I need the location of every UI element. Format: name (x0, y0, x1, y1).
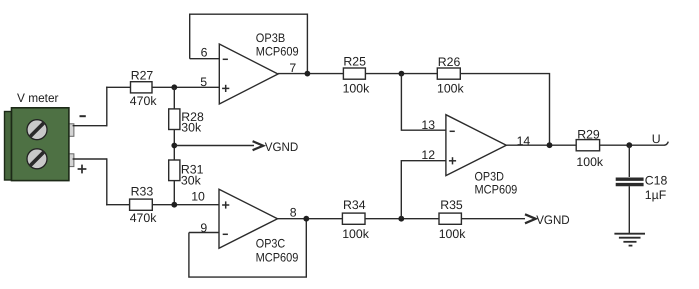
resistor R26 (437, 55, 465, 96)
node OP3C output junction (303, 216, 309, 222)
wire junction down to C18 (628, 145, 630, 177)
wire R26 feedback to OP3D output (460, 74, 549, 146)
svg-text:VGND: VGND (265, 140, 299, 154)
wire OP3C output (278, 218, 343, 220)
svg-text:R29: R29 (577, 128, 600, 142)
svg-text:R34: R34 (343, 198, 366, 212)
wire junction to pin12 (401, 161, 446, 219)
label plus (78, 165, 87, 174)
svg-text:MCP609: MCP609 (256, 251, 299, 265)
wire to VGND arrow (174, 145, 254, 147)
svg-text:R26: R26 (438, 55, 461, 69)
svg-text:470k: 470k (130, 94, 158, 108)
wire plus tab to corner (73, 158, 107, 160)
node R34/R35 junction (398, 216, 404, 222)
node R31/R33 junction (171, 202, 177, 208)
wire OP3D output (506, 144, 576, 146)
resistor R25 (343, 55, 371, 96)
svg-text:VGND: VGND (536, 213, 570, 227)
svg-text:100k: 100k (439, 227, 467, 241)
wire R34 to R35 (365, 218, 439, 220)
wire R27 to pin5 (152, 86, 219, 88)
label minus (80, 115, 86, 117)
resistor R34 (342, 198, 370, 241)
wire corner down (106, 158, 108, 205)
capacitor C18 (616, 173, 668, 202)
resistor R33 (130, 185, 158, 225)
op-amp U-OP3B (219, 31, 298, 104)
wire pin6 stub (190, 58, 220, 60)
svg-text:OP3C: OP3C (256, 236, 285, 250)
ground symbol (614, 234, 645, 246)
wire R25 to R26 (365, 73, 437, 75)
wire R29 to output U (600, 144, 665, 146)
svg-text:1µF: 1µF (645, 188, 667, 202)
svg-text:R33: R33 (131, 185, 154, 199)
wire R35 to VGND arrow (461, 218, 525, 220)
resistor R27 (130, 69, 158, 109)
svg-text:OP3D: OP3D (475, 169, 504, 183)
resistor R35 (439, 198, 467, 241)
svg-text:MCP609: MCP609 (256, 45, 299, 59)
svg-text:OP3B: OP3B (256, 31, 285, 45)
svg-text:13: 13 (421, 118, 435, 132)
wire OP3B feedback loop (190, 14, 308, 73)
svg-text:8: 8 (290, 206, 297, 220)
svg-text:10: 10 (191, 190, 205, 204)
wire corner to R33 (106, 204, 130, 206)
node OP3B output junction (305, 71, 311, 77)
node OP3D output junction (547, 142, 553, 148)
wire R28 to R31 (173, 130, 175, 161)
wire junction down to R28 (173, 87, 175, 109)
svg-text:100k: 100k (342, 227, 370, 241)
wire corner up (106, 87, 108, 127)
op-amp U-OP3D (446, 115, 518, 197)
wire C18 to ground (628, 186, 630, 234)
svg-text:470k: 470k (130, 211, 158, 225)
svg-text:7: 7 (289, 61, 296, 75)
VGND arrow bottom (525, 213, 570, 227)
resistor R29 (576, 128, 604, 170)
resistor R28 (169, 109, 204, 135)
node R25/R26 junction (399, 71, 405, 77)
svg-text:R25: R25 (343, 55, 366, 69)
svg-text:R27: R27 (131, 69, 154, 83)
wire OP3C feedback loop (189, 219, 306, 277)
svg-text:100k: 100k (343, 81, 371, 95)
wire pin9 stub (189, 232, 219, 234)
svg-text:30k: 30k (181, 121, 202, 135)
svg-text:C18: C18 (645, 173, 668, 187)
node at R27/R28 junction (171, 84, 177, 90)
connector J1 V meter terminal block (5, 108, 74, 181)
svg-text:6: 6 (201, 45, 208, 59)
svg-text:30k: 30k (181, 173, 202, 187)
wire R31 to bottom junction (173, 181, 175, 205)
wire OP3B output (278, 73, 343, 75)
svg-text:R35: R35 (440, 198, 463, 212)
svg-text:V meter: V meter (17, 91, 59, 105)
resistor R31 (169, 160, 204, 187)
wire minus tab to corner (73, 125, 107, 127)
output hook U (664, 142, 668, 146)
svg-text:100k: 100k (437, 82, 465, 96)
svg-text:MCP609: MCP609 (475, 183, 518, 197)
node VGND junction (171, 143, 177, 149)
node C18 junction (626, 142, 632, 148)
svg-text:U: U (652, 132, 661, 146)
svg-text:5: 5 (200, 75, 207, 89)
wire R33 to pin10 (152, 204, 219, 206)
VGND arrow top (253, 140, 299, 154)
op-amp U-OP3C (219, 189, 299, 264)
wire junction to pin13 (401, 74, 446, 131)
svg-text:100k: 100k (576, 155, 604, 169)
wire corner to R27 (106, 86, 130, 88)
